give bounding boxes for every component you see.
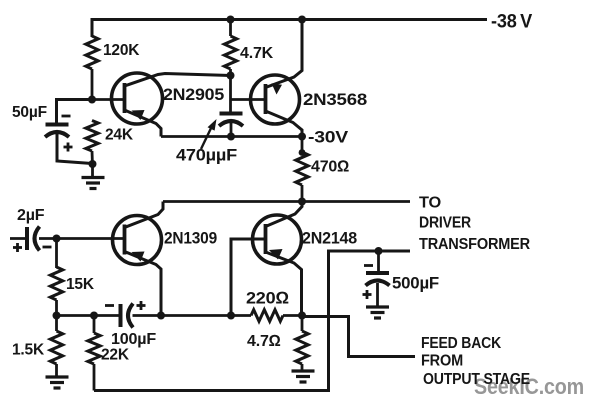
transistor Q4 emitter arrow: [269, 249, 283, 260]
node C2 bottom junction: [227, 133, 235, 141]
label 1.5K value: [12, 342, 45, 359]
wire 1.5K top: [55, 316, 58, 332]
transistor Q4 emitter lead: [266, 252, 302, 316]
label C4 plus polarity: [137, 301, 146, 310]
transistor Q4 2N2148 circle: [253, 215, 302, 264]
resistor R1 120K: [86, 36, 98, 69]
label 4.7K value: [240, 45, 274, 62]
svg-text:DRIVER: DRIVER: [419, 215, 472, 232]
wire Q3 base lead: [57, 237, 126, 240]
label 22K value: [101, 347, 130, 364]
resistor R5 15K: [50, 267, 62, 300]
resistor R2 24K: [86, 121, 98, 152]
capacitor C3 2uF input: [27, 227, 40, 251]
label 15K value: [66, 276, 95, 293]
label 220ohm value: [246, 289, 289, 308]
wire 4.7K bottom to collector node: [229, 69, 232, 76]
label 470uuF pointer arrow: [201, 119, 217, 149]
label 470uuF value: [176, 147, 237, 165]
transistor Q4 collector lead: [266, 202, 303, 227]
transistor Q1 emitter lead: [125, 110, 162, 137]
capacitor C4 100uF: [121, 304, 134, 328]
label Q1 2N2905: [163, 85, 224, 104]
wire 15K from base node: [55, 239, 58, 269]
svg-text:120K: 120K: [103, 42, 140, 59]
transistor Q3 emitter lead: [125, 252, 162, 316]
wire 22K top: [93, 316, 96, 334]
label 24K value: [105, 127, 134, 144]
label DRIVER: [419, 215, 472, 232]
wire input stub: [10, 237, 27, 240]
label 120K value: [103, 42, 140, 59]
svg-text:FEED BACK: FEED BACK: [421, 335, 502, 352]
transistor Q3 collector lead: [125, 202, 164, 228]
wire bus y315 left segment: [57, 314, 121, 317]
wire 1.5K bottom to ground: [55, 364, 58, 377]
wire 50uF bottom to ground node: [57, 134, 92, 164]
label FROM: [421, 353, 463, 370]
svg-text:2N2148: 2N2148: [302, 229, 357, 248]
resistor R4 470ohm: [296, 152, 308, 185]
transistor Q3 emitter arrow: [132, 252, 145, 262]
node junction top rail to 4.7K: [227, 16, 235, 24]
wire 22K bottom to bottom rail: [93, 364, 96, 391]
label 470ohm value: [311, 159, 349, 176]
label Q2 2N3568: [303, 90, 367, 109]
wire -30V node to R4: [301, 137, 304, 154]
transistor Q2 emitter arrow: [272, 83, 283, 94]
wire 15K bottom: [55, 300, 58, 316]
wire Q4 base lead from bias node: [231, 239, 266, 316]
capacitor C1 50uF branch wire top: [57, 100, 93, 125]
wire 4.7K top: [229, 20, 232, 37]
label C1 plus polarity: [64, 143, 73, 152]
svg-text:1.5K: 1.5K: [12, 342, 45, 359]
transistor Q1 base bar: [123, 83, 127, 113]
label -38 V: [491, 12, 532, 33]
wire C5 top stem: [377, 251, 380, 272]
transistor Q3 2N1309 circle: [113, 216, 162, 265]
label C5 minus polarity: [364, 264, 373, 267]
node R4 top junction: [299, 149, 306, 156]
label 4.7ohm value: [247, 333, 281, 350]
svg-text:24K: 24K: [105, 127, 134, 144]
label OUTPUT STAGE: [423, 371, 530, 388]
wire C5 bottom stem: [376, 283, 379, 307]
label -30V: [308, 128, 349, 147]
resistor R8 220ohm: [251, 310, 283, 322]
wire bottom rail to transformer return: [94, 251, 410, 391]
svg-text:15K: 15K: [66, 276, 95, 293]
transistor Q3 base bar: [123, 225, 127, 255]
wire collector node down to C2: [229, 76, 232, 114]
node Q3 emitter junction: [157, 312, 165, 320]
label TO: [419, 195, 441, 212]
svg-text:2µF: 2µF: [17, 207, 45, 224]
node A base node of Q1: [88, 96, 96, 104]
resistor R3 4.7K: [224, 36, 236, 69]
svg-text:4.7K: 4.7K: [240, 45, 274, 62]
capacitor C1 50uF: [45, 125, 69, 138]
label 2uF value: [17, 207, 45, 224]
svg-text:500µF: 500µF: [392, 275, 439, 293]
ground under 24K: [82, 164, 105, 189]
wire Q1 base lead: [92, 98, 125, 101]
svg-text:-38 V: -38 V: [491, 12, 532, 33]
wire emitter bus Q1 to -30V node: [161, 135, 302, 138]
label Q4 2N2148: [302, 229, 357, 248]
resistor R6 1.5K: [50, 331, 62, 364]
svg-text:TO: TO: [419, 195, 441, 212]
wire 4.7ohm top: [301, 316, 304, 332]
transistor Q2 emitter lead top: [266, 20, 303, 88]
svg-text:50µF: 50µF: [12, 104, 47, 121]
node ground junction under 24K: [89, 160, 97, 168]
svg-text:220Ω: 220Ω: [246, 289, 289, 308]
node 22K top junction: [90, 312, 98, 320]
wire 220ohm right segment: [283, 314, 302, 317]
wire R4 bottom to TO node: [301, 185, 304, 202]
transistor Q2 base bar: [264, 84, 268, 114]
transistor Q1 collector lead: [125, 74, 231, 87]
wire C2 bottom stem: [230, 123, 233, 137]
svg-text:470Ω: 470Ω: [311, 159, 349, 176]
svg-text:TRANSFORMER: TRANSFORMER: [419, 236, 531, 253]
svg-text:2N3568: 2N3568: [303, 90, 367, 109]
capacitor C5 500uF: [366, 273, 390, 286]
label C3 minus polarity: [43, 246, 52, 249]
svg-text:470µµF: 470µµF: [176, 147, 237, 165]
svg-text:2N1309: 2N1309: [164, 229, 217, 248]
svg-text:2N2905: 2N2905: [163, 85, 224, 104]
resistor R9 4.7ohm: [296, 331, 308, 364]
wire C3 to base node: [39, 237, 57, 240]
wire feedback tee: [302, 317, 415, 357]
node Q4 emitter node: [298, 312, 306, 320]
capacitor C2 470uuF: [219, 114, 243, 127]
svg-text:FROM: FROM: [421, 353, 463, 370]
label TRANSFORMER: [419, 236, 531, 253]
label C1 minus polarity: [62, 115, 71, 118]
node Q4 bias junction: [227, 312, 235, 320]
svg-text:OUTPUT STAGE: OUTPUT STAGE: [423, 371, 530, 388]
wire collector bus at y 201: [163, 200, 410, 203]
label FEED BACK: [421, 335, 502, 352]
resistor R7 22K: [88, 333, 100, 364]
node collector node of Q1: [227, 72, 235, 80]
node TO-driver node: [298, 198, 306, 206]
svg-text:100µF: 100µF: [111, 331, 156, 348]
svg-text:-30V: -30V: [308, 128, 349, 147]
wire -38V supply rail: [92, 20, 487, 38]
wire C4 right to emitter junction: [133, 314, 162, 317]
label 100uF value: [111, 331, 156, 348]
label C3 plus polarity: [13, 243, 22, 252]
wire bus y315 mid segment: [161, 314, 251, 317]
node -30V node: [298, 133, 306, 141]
transistor Q2 collector lead bottom: [266, 111, 303, 137]
wire 120K bottom to base node: [91, 69, 94, 100]
node 500uF junction: [375, 247, 383, 255]
label 50uF value: [12, 104, 47, 121]
label C4 minus polarity: [105, 304, 114, 307]
label 500uF value: [392, 275, 439, 293]
ground under 1.5K: [46, 377, 69, 388]
svg-text:22K: 22K: [101, 347, 130, 364]
ground under 4.7ohm: [292, 371, 315, 382]
wire Q2 base lead: [231, 98, 267, 101]
label C5 plus polarity: [363, 290, 372, 299]
ground under 500uF: [366, 307, 389, 318]
wire 24K bottom to ground: [91, 151, 94, 166]
node feedback bus left junction: [53, 312, 61, 320]
transistor Q4 base bar: [264, 224, 268, 254]
transistor Q1 emitter arrow: [132, 110, 145, 120]
node B base node of Q3: [53, 235, 61, 243]
wire 4.7ohm bottom to ground: [301, 364, 304, 371]
node junction top rail to Q2 collector: [298, 16, 306, 24]
transistor Q1 2N2905 circle: [112, 73, 163, 124]
svg-text:4.7Ω: 4.7Ω: [247, 333, 281, 350]
transistor Q2 2N3568 circle: [251, 75, 300, 124]
label Q3 2N1309: [164, 229, 217, 248]
